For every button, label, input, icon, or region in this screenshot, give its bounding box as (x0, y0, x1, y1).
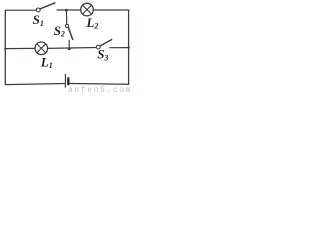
wire : S2 branch lower vertical (68, 40, 70, 49)
wire : middle wire from L1 to S3 (48, 47, 97, 50)
wire : top right segment (93, 9, 129, 11)
battery long plate (64, 74, 66, 88)
node : junction middle wire with left border (4, 48, 6, 50)
wire : bottom border left of battery (5, 84, 65, 85)
node : junction of S2 branch with middle wire (68, 47, 71, 50)
wire : middle wire from left border to L1 (5, 47, 35, 49)
node : junction on top wire for S2 branch (65, 9, 68, 12)
node : junction middle wire with right border (127, 46, 129, 48)
svg-text:anfen5.com: anfen5.com (68, 86, 132, 93)
svg-text:L1: L1 (40, 54, 53, 70)
switch S1 blade (40, 3, 55, 9)
lamp L1 cross (37, 44, 46, 53)
svg-text:S3: S3 (97, 47, 108, 63)
svg-text:S2: S2 (54, 23, 65, 39)
svg-text:L2: L2 (85, 15, 98, 31)
wire : left border (4, 10, 6, 84)
lamp L2 cross (83, 5, 92, 14)
switch S1 pivot circle (36, 8, 40, 12)
wire : bottom border right of battery (70, 83, 130, 86)
switch S3 blade (100, 39, 112, 46)
switch S2 blade (68, 27, 73, 40)
wire : middle wire right of S3 to right border (109, 47, 129, 49)
lamp L1 circle (35, 42, 48, 55)
wire : S2 branch upper vertical (66, 10, 68, 24)
switch S3 pivot circle (96, 45, 100, 49)
svg-text:S1: S1 (33, 12, 44, 28)
wire : top between S1 and L2 (57, 9, 81, 11)
lamp L2 circle (81, 3, 94, 16)
wire : top border left segment to S1 (5, 9, 36, 11)
wire : right border (128, 10, 130, 85)
battery short thick plate (67, 77, 69, 85)
switch S2 pivot circle (65, 24, 68, 27)
